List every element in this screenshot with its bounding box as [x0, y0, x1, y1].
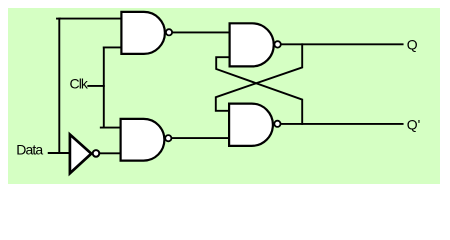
svg-text:Q: Q [407, 37, 418, 53]
svg-text:Q': Q' [407, 117, 421, 133]
svg-text:Clk: Clk [70, 75, 89, 91]
svg-text:Data: Data [16, 141, 43, 157]
